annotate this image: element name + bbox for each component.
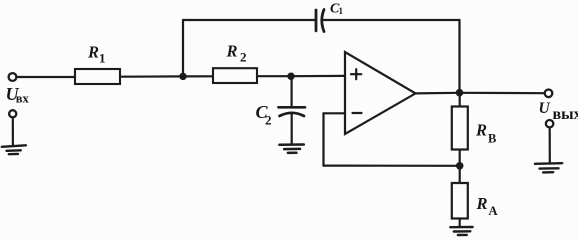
- wire output node to RB: [459, 93, 461, 107]
- svg-text:U: U: [539, 100, 551, 117]
- svg-text:R: R: [226, 42, 238, 61]
- terminal output: [545, 90, 553, 98]
- svg-text:B: B: [488, 132, 496, 146]
- resistor RA: [452, 183, 468, 219]
- wire down to output node: [458, 20, 460, 93]
- terminal output ground circle: [546, 120, 553, 127]
- wire node B to op-amp + input: [291, 75, 345, 77]
- terminal input ground circle: [9, 110, 16, 117]
- svg-text:R: R: [476, 194, 488, 213]
- op-amp plus input mark: [351, 69, 361, 79]
- node A: [179, 73, 186, 80]
- wire R1 to node A: [120, 75, 183, 77]
- wire op-amp output to node: [416, 92, 460, 95]
- svg-text:R: R: [475, 120, 487, 139]
- label R1: [87, 43, 106, 66]
- capacitor C1: [316, 10, 324, 32]
- wire output ground lead: [549, 127, 551, 162]
- op-amp U1 body: [345, 52, 416, 134]
- ground RA: [450, 227, 472, 235]
- ground input: [2, 145, 26, 154]
- wire op-amp minus stub: [324, 112, 346, 114]
- ground output: [535, 163, 562, 172]
- wire node A up to top rail: [182, 20, 184, 76]
- wire node A to R2: [183, 75, 213, 77]
- svg-text:1: 1: [339, 6, 344, 16]
- wire output node to terminal: [460, 92, 545, 95]
- wire RA to ground: [459, 219, 461, 227]
- label RB: [475, 120, 496, 145]
- svg-text:1: 1: [99, 51, 106, 66]
- wire junction to RA: [459, 166, 461, 183]
- wire R2 to node B: [257, 75, 291, 77]
- capacitor C2: [279, 107, 306, 116]
- node RB-RA junction: [456, 162, 464, 170]
- label RA: [476, 194, 498, 218]
- wire top rail left segment: [183, 19, 316, 21]
- terminal input: [9, 73, 17, 81]
- label U_BX: [6, 84, 30, 106]
- node output: [456, 89, 464, 97]
- resistor RB: [452, 107, 468, 150]
- ground C2: [279, 145, 303, 153]
- resistor R2: [213, 68, 257, 83]
- wire node B down to C2: [291, 76, 293, 106]
- svg-text:A: A: [489, 204, 498, 218]
- label C1: [330, 2, 344, 17]
- resistor R1: [75, 69, 120, 84]
- svg-text:вых: вых: [553, 106, 578, 123]
- label U_BYX: [539, 100, 578, 123]
- svg-text:R: R: [87, 43, 99, 62]
- wire feedback vertical: [322, 113, 324, 165]
- node B: [287, 73, 294, 80]
- wire RB to junction: [459, 150, 461, 166]
- label R2: [226, 42, 247, 65]
- label C2: [256, 102, 272, 127]
- op-amp minus input mark: [353, 112, 362, 114]
- wire C2 to ground: [291, 113, 293, 144]
- svg-text:вх: вх: [16, 92, 30, 106]
- wire feedback bottom horizontal: [324, 165, 460, 167]
- wire input to R1: [17, 76, 75, 78]
- svg-text:2: 2: [265, 113, 272, 128]
- wire input ground lead: [12, 118, 14, 145]
- wire top rail right segment: [324, 19, 460, 21]
- svg-text:2: 2: [240, 50, 247, 65]
